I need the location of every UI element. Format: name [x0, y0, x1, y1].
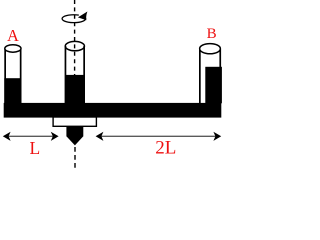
svg-text:B: B: [207, 26, 217, 42]
svg-text:A: A: [7, 26, 19, 45]
svg-text:L: L: [30, 138, 41, 158]
svg-text:2L: 2L: [155, 138, 176, 159]
